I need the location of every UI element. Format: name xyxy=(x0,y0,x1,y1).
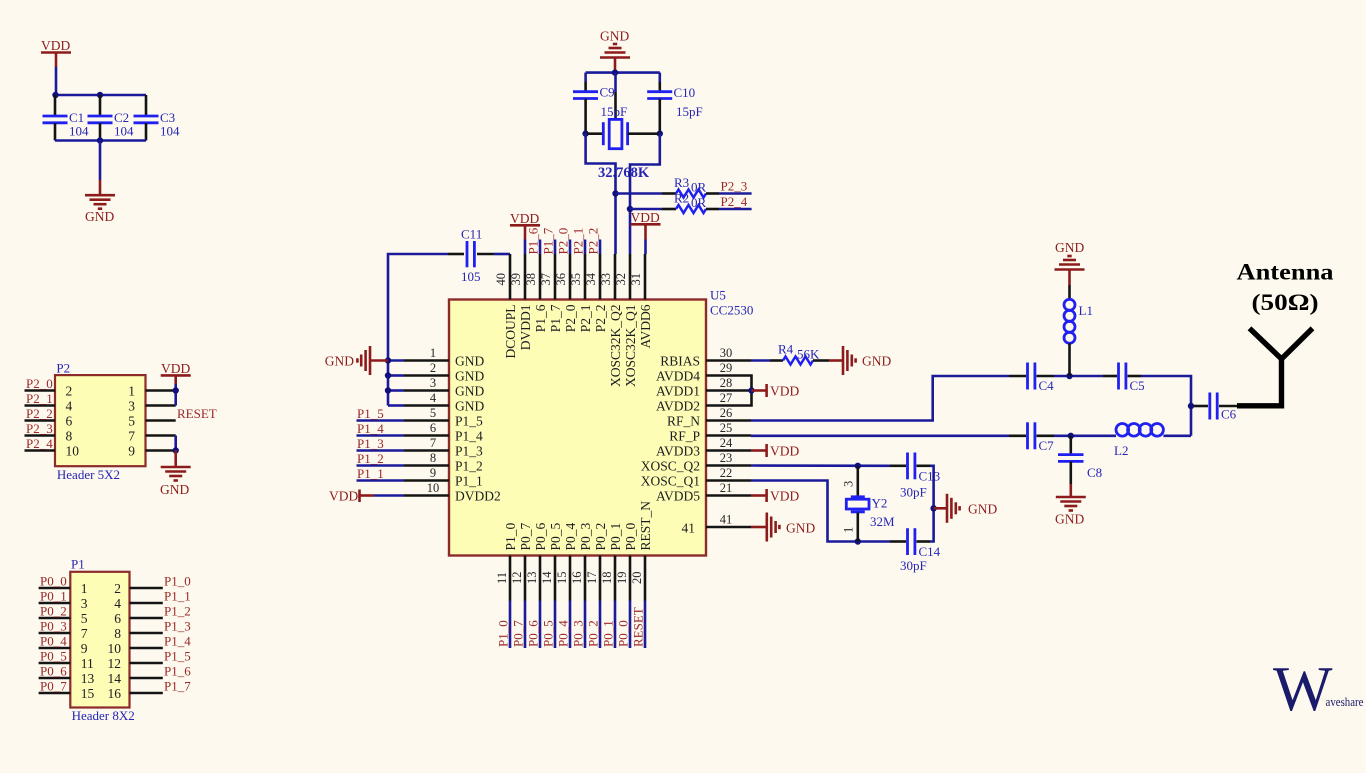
crystal Y1 32.768K xyxy=(586,119,660,148)
svg-text:P1_3: P1_3 xyxy=(455,443,483,458)
svg-text:RBIAS: RBIAS xyxy=(660,353,700,368)
U5 pin 22 (XOSC_Q1) xyxy=(641,466,751,488)
svg-text:P0_5: P0_5 xyxy=(548,522,563,550)
connector P1 body (Header 8X2) xyxy=(70,572,129,708)
wire rail to Y1 case pin xyxy=(614,73,617,92)
wire stub pin 38 xyxy=(539,240,542,255)
junction C6 node xyxy=(1188,403,1194,409)
svg-text:P0_3: P0_3 xyxy=(40,618,67,633)
junction R2 tap xyxy=(627,206,633,212)
svg-text:AVDD6: AVDD6 xyxy=(638,304,653,348)
svg-text:20: 20 xyxy=(630,572,644,585)
capacitor C1 xyxy=(43,95,90,141)
svg-text:Y2: Y2 xyxy=(872,496,888,511)
svg-text:VDD: VDD xyxy=(161,361,190,376)
svg-text:GND: GND xyxy=(455,368,484,383)
svg-text:18: 18 xyxy=(600,572,614,585)
svg-text:P1_1: P1_1 xyxy=(455,473,483,488)
U5 pin 34 (P2_2) xyxy=(584,254,608,332)
svg-text:27: 27 xyxy=(720,391,733,405)
svg-text:GND: GND xyxy=(160,482,189,497)
svg-text:P1_7: P1_7 xyxy=(548,304,563,332)
wire / net P0_4 (pin 15) xyxy=(555,601,570,649)
U5 pin 3 (GND) xyxy=(404,376,484,398)
svg-text:16: 16 xyxy=(570,572,584,585)
svg-text:3: 3 xyxy=(81,596,88,611)
U5 pin 2 (GND) xyxy=(404,361,484,383)
ground GND (R4) xyxy=(829,346,891,375)
svg-text:P0_2: P0_2 xyxy=(593,523,608,551)
svg-text:AVDD1: AVDD1 xyxy=(656,383,700,398)
U5 pin 32 (XOSC32K_Q1) xyxy=(614,254,638,387)
power VDD (top-left) xyxy=(41,38,71,67)
P1 pin 15 / net P0_7 xyxy=(39,678,95,701)
svg-text:24: 24 xyxy=(720,436,733,450)
svg-text:P1_5: P1_5 xyxy=(455,413,483,428)
svg-text:P1_1: P1_1 xyxy=(357,466,384,481)
ground GND (top-left) xyxy=(85,180,115,224)
P1 pin 11 / net P0_5 xyxy=(39,648,94,671)
svg-text:2: 2 xyxy=(430,361,436,375)
svg-text:P1: P1 xyxy=(71,557,85,572)
U5 pin 20 (REST_N) xyxy=(630,501,653,601)
svg-text:GND: GND xyxy=(862,354,891,369)
P2 pin 9 xyxy=(128,443,175,458)
svg-text:1: 1 xyxy=(842,527,856,533)
junction rail / GND xyxy=(930,505,936,511)
svg-text:17: 17 xyxy=(585,572,599,585)
svg-text:6: 6 xyxy=(114,611,121,626)
P2 pin 3 xyxy=(128,398,175,413)
P1 pin 16 / net P1_7 xyxy=(108,678,192,701)
svg-text:P0_2: P0_2 xyxy=(585,620,600,647)
U5 pin 12 (P0_7) xyxy=(510,522,533,600)
ground GND (above L1, inverted) xyxy=(1055,240,1085,285)
wire VDD to rail xyxy=(55,67,58,95)
U5 pin 15 (P0_4) xyxy=(555,522,578,600)
wire / net P1_2 (pin 8) xyxy=(357,451,405,466)
resistor R3 0R xyxy=(616,175,720,198)
U5 pin 13 (P0_6) xyxy=(525,522,548,600)
wire / net P1_3 (pin 7) xyxy=(357,436,405,451)
wire / net P2_4 xyxy=(719,194,752,209)
wire / net P0_5 (pin 14) xyxy=(540,601,555,649)
svg-text:P0_6: P0_6 xyxy=(525,620,540,647)
svg-text:RF_N: RF_N xyxy=(667,413,700,428)
svg-text:RF_P: RF_P xyxy=(669,428,700,443)
svg-text:21: 21 xyxy=(720,481,733,495)
svg-text:P1_5: P1_5 xyxy=(357,406,384,421)
U5 pin 28 (AVDD1) xyxy=(656,376,751,398)
svg-text:25: 25 xyxy=(720,421,733,435)
svg-text:23: 23 xyxy=(720,451,733,465)
svg-text:P1_1: P1_1 xyxy=(164,588,191,603)
junction at C2 top xyxy=(97,92,103,98)
resistor R4 56K xyxy=(751,342,829,365)
svg-text:P0_3: P0_3 xyxy=(570,620,585,647)
crystal Y2 32M xyxy=(842,466,896,542)
svg-text:C5: C5 xyxy=(1130,378,1145,393)
junction pin2 xyxy=(385,372,391,378)
U5 pin 1 (GND) xyxy=(404,346,484,368)
wire crystal top rail xyxy=(586,71,660,74)
svg-text:XOSC32K_Q2: XOSC32K_Q2 xyxy=(608,305,623,388)
svg-text:GND: GND xyxy=(600,29,629,44)
svg-text:(50Ω): (50Ω) xyxy=(1252,290,1319,316)
svg-text:XOSC32K_Q1: XOSC32K_Q1 xyxy=(623,305,638,388)
power VDD (pin 28) xyxy=(752,384,800,399)
svg-text:28: 28 xyxy=(720,376,733,390)
wire C13/C14 right rail xyxy=(930,466,934,542)
svg-text:9: 9 xyxy=(430,466,436,480)
U5 pin 11 (P1_0) xyxy=(495,522,518,600)
U5 pin 23 (XOSC_Q2) xyxy=(641,451,751,473)
capacitor C11 xyxy=(388,227,510,361)
svg-text:5: 5 xyxy=(430,406,436,420)
junction C8 xyxy=(1068,433,1074,439)
wire / net P1_1 (pin 9) xyxy=(357,466,405,481)
power VDD (pin 24) xyxy=(751,444,799,459)
wire / net P0_0 (pin 19) xyxy=(615,601,630,649)
U5 pin 35 (P2_1) xyxy=(569,254,593,332)
capacitor C4 xyxy=(1009,363,1054,394)
svg-text:P0_1: P0_1 xyxy=(600,620,615,647)
svg-text:4: 4 xyxy=(430,391,437,405)
P1 pin 4 / net P1_1 xyxy=(114,588,190,611)
svg-text:L2: L2 xyxy=(1114,443,1128,458)
svg-text:32: 32 xyxy=(614,273,628,286)
svg-text:VDD: VDD xyxy=(329,489,358,504)
svg-text:11: 11 xyxy=(495,572,509,584)
wire VDD to pins 1,3 xyxy=(174,384,177,406)
svg-text:30pF: 30pF xyxy=(900,558,927,573)
svg-text:Header 5X2: Header 5X2 xyxy=(57,467,120,482)
svg-text:P2_2: P2_2 xyxy=(593,305,608,333)
svg-text:3: 3 xyxy=(430,376,436,390)
wire pin23 to Y2 top / C13 xyxy=(751,464,890,467)
junction P2 pin1 xyxy=(173,387,179,393)
svg-text:GND: GND xyxy=(786,521,815,536)
U5 pin 16 (P0_3) xyxy=(570,522,593,600)
wire top rail C1-C3 xyxy=(55,94,146,97)
svg-text:R2: R2 xyxy=(674,191,689,206)
svg-text:P0_7: P0_7 xyxy=(40,678,67,693)
svg-text:AVDD5: AVDD5 xyxy=(656,488,700,503)
capacitor C8 xyxy=(1058,436,1102,484)
svg-text:GND: GND xyxy=(1055,240,1084,255)
svg-text:P1_6: P1_6 xyxy=(164,663,191,678)
junction C9/Y1 xyxy=(582,130,588,136)
svg-text:P1_0: P1_0 xyxy=(495,620,510,647)
svg-text:9: 9 xyxy=(128,443,135,458)
svg-text:15pF: 15pF xyxy=(676,104,703,119)
P2 pin 6 / net P2_2 xyxy=(25,406,73,429)
power VDD (P2 pins 1,3) xyxy=(161,361,191,384)
U5 pin 38 (P1_6) xyxy=(524,254,548,332)
svg-text:32.768K: 32.768K xyxy=(598,165,650,181)
svg-text:aveshare: aveshare xyxy=(1326,694,1364,709)
power VDD (pin 21) xyxy=(751,489,799,504)
svg-text:P2: P2 xyxy=(56,361,70,376)
svg-text:104: 104 xyxy=(69,124,89,139)
U5 pin 39 (DVDD1) xyxy=(509,254,533,350)
svg-text:GND: GND xyxy=(455,353,484,368)
svg-text:0R: 0R xyxy=(691,195,707,210)
wire / net P1_5 (pin 5) xyxy=(357,406,405,421)
svg-text:P0_2: P0_2 xyxy=(40,603,67,618)
U5 pin 6 (P1_4) xyxy=(404,421,483,443)
P1 pin 10 / net P1_4 xyxy=(108,633,192,656)
op-amp U5 body (IC CC2530) xyxy=(449,300,706,556)
svg-text:41: 41 xyxy=(720,513,733,527)
P2 pin 5 xyxy=(128,413,175,428)
svg-text:30: 30 xyxy=(720,346,733,360)
U5 pin 18 (P0_1) xyxy=(600,523,623,601)
svg-text:5: 5 xyxy=(128,413,135,428)
U5 pin 9 (P1_1) xyxy=(404,466,483,488)
svg-text:GND: GND xyxy=(968,502,997,517)
U5 pin 21 (AVDD5) xyxy=(656,481,751,503)
svg-text:P0_4: P0_4 xyxy=(563,522,578,550)
capacitor C6 xyxy=(1194,393,1237,422)
wire / net P0_7 (pin 12) xyxy=(510,601,525,649)
svg-text:GND: GND xyxy=(455,398,484,413)
svg-text:C8: C8 xyxy=(1087,465,1102,480)
ground GND (left of pins 1-4) xyxy=(325,346,388,375)
svg-text:P2_4: P2_4 xyxy=(721,194,748,209)
svg-text:56K: 56K xyxy=(797,347,820,362)
svg-text:AVDD2: AVDD2 xyxy=(656,398,700,413)
ground GND (C8) xyxy=(1055,484,1086,527)
ground GND (above Y1, inverted) xyxy=(600,29,630,73)
svg-text:REST_N: REST_N xyxy=(638,501,653,551)
svg-text:P1_2: P1_2 xyxy=(357,451,384,466)
svg-text:P1_6: P1_6 xyxy=(525,227,540,254)
svg-text:1: 1 xyxy=(81,581,88,596)
label Antenna (50ohm) xyxy=(1237,260,1334,317)
svg-text:2: 2 xyxy=(66,383,73,398)
wire / net P0_6 (pin 13) xyxy=(525,601,540,649)
svg-text:105: 105 xyxy=(461,269,481,284)
U5 pin 10 (DVDD2) xyxy=(404,481,501,503)
svg-text:C9: C9 xyxy=(600,85,615,100)
svg-text:P0_5: P0_5 xyxy=(540,620,555,647)
capacitor C2 xyxy=(88,95,135,141)
svg-text:7: 7 xyxy=(128,428,135,443)
junction pin3 xyxy=(385,387,391,393)
svg-text:P0_7: P0_7 xyxy=(510,620,525,647)
svg-text:31: 31 xyxy=(629,273,643,286)
svg-text:39: 39 xyxy=(509,273,523,286)
U5 pin 17 (P0_2) xyxy=(585,523,608,601)
junction pin 28 xyxy=(748,387,754,393)
inductor L2 xyxy=(1071,424,1191,459)
U5 pin 31 (AVDD6) xyxy=(629,254,653,349)
P1 pin 5 / net P0_2 xyxy=(39,603,88,626)
svg-text:P2_0: P2_0 xyxy=(26,376,53,391)
svg-text:10: 10 xyxy=(427,481,440,495)
svg-text:34: 34 xyxy=(584,272,598,285)
wire / net P0_1 (pin 18) xyxy=(600,601,615,649)
svg-text:CC2530: CC2530 xyxy=(710,303,753,318)
svg-text:GND: GND xyxy=(455,383,484,398)
svg-text:13: 13 xyxy=(81,671,95,686)
wire / net P1_0 (pin 11) xyxy=(495,601,510,649)
wire stub pin 34 xyxy=(599,240,602,255)
svg-text:1: 1 xyxy=(430,346,436,360)
ground GND (P2) xyxy=(160,451,191,498)
svg-text:P1_7: P1_7 xyxy=(164,678,191,693)
U5 pin 8 (P1_2) xyxy=(404,451,483,473)
junction at VDD/C1 xyxy=(52,92,58,98)
svg-text:P2_2: P2_2 xyxy=(585,228,600,255)
capacitor C3 xyxy=(134,95,181,141)
svg-text:Header 8X2: Header 8X2 xyxy=(72,708,135,723)
junction Y2 top (pin 3) xyxy=(855,463,861,469)
svg-text:36: 36 xyxy=(554,273,568,286)
junction C10/Y1 xyxy=(657,130,663,136)
svg-text:P0_7: P0_7 xyxy=(518,522,533,550)
svg-text:VDD: VDD xyxy=(510,211,539,226)
svg-text:RESET: RESET xyxy=(177,406,217,421)
svg-text:P1_0: P1_0 xyxy=(164,573,191,588)
resistor R2 0R xyxy=(630,191,719,214)
svg-text:P1_4: P1_4 xyxy=(455,428,483,443)
U5 pin 41 (pad) xyxy=(682,513,752,536)
svg-text:26: 26 xyxy=(720,406,733,420)
svg-text:VDD: VDD xyxy=(770,489,799,504)
svg-text:AVDD4: AVDD4 xyxy=(656,368,700,383)
U5 pin 29 (AVDD4) xyxy=(656,361,751,383)
svg-text:C13: C13 xyxy=(919,469,941,484)
svg-text:P2_0: P2_0 xyxy=(563,304,578,332)
svg-text:P0_4: P0_4 xyxy=(40,633,67,648)
svg-text:P1_0: P1_0 xyxy=(503,522,518,550)
junction P2 pin9 xyxy=(173,447,179,453)
svg-text:P2_1: P2_1 xyxy=(570,228,585,255)
svg-text:C10: C10 xyxy=(674,85,696,100)
capacitor C14 xyxy=(890,528,941,573)
svg-text:13: 13 xyxy=(525,572,539,585)
wire stub pin 37 xyxy=(554,240,557,255)
svg-text:11: 11 xyxy=(81,656,94,671)
svg-text:12: 12 xyxy=(108,656,122,671)
U5 pin 40 (DCOUPL) xyxy=(494,254,518,359)
U5 pin 25 (RF_P) xyxy=(669,421,751,443)
wire stub pin 36 xyxy=(569,240,572,255)
svg-text:DVDD1: DVDD1 xyxy=(518,305,533,351)
svg-text:W: W xyxy=(1273,654,1333,724)
svg-text:38: 38 xyxy=(524,273,538,286)
svg-text:16: 16 xyxy=(108,686,122,701)
svg-text:XOSC_Q2: XOSC_Q2 xyxy=(641,458,700,473)
svg-text:C11: C11 xyxy=(461,227,482,242)
svg-text:3: 3 xyxy=(842,481,856,487)
capacitor C13 xyxy=(890,453,940,500)
svg-text:C4: C4 xyxy=(1039,378,1055,393)
wire / net P1_4 (pin 6) xyxy=(357,421,405,436)
U5 pin 5 (P1_5) xyxy=(404,406,483,428)
svg-text:U5: U5 xyxy=(710,288,726,303)
wire / net P0_2 (pin 17) xyxy=(585,601,600,649)
P1 pin 7 / net P0_3 xyxy=(39,618,88,641)
wire rail to GND xyxy=(99,141,102,181)
U5 pin 36 (P2_0) xyxy=(554,254,578,332)
svg-text:R3: R3 xyxy=(674,175,689,190)
Waveshare logo xyxy=(1273,654,1364,724)
wire Y1 right to pin32 xyxy=(630,134,660,254)
svg-text:7: 7 xyxy=(81,626,88,641)
svg-text:P0_0: P0_0 xyxy=(615,620,630,647)
svg-text:0R: 0R xyxy=(691,180,707,195)
svg-text:P1_6: P1_6 xyxy=(533,304,548,332)
svg-text:14: 14 xyxy=(540,571,554,584)
wire / net P2_3 xyxy=(719,179,752,194)
svg-text:P0_6: P0_6 xyxy=(40,663,67,678)
svg-text:R4: R4 xyxy=(778,342,794,357)
svg-text:9: 9 xyxy=(81,641,88,656)
svg-text:15: 15 xyxy=(555,572,569,585)
svg-text:4: 4 xyxy=(114,596,121,611)
ground GND (pin 41) xyxy=(751,513,815,542)
svg-text:6: 6 xyxy=(66,413,73,428)
inductor L1 xyxy=(1064,285,1093,376)
wire / net RESET (pin 20) xyxy=(630,601,645,649)
svg-text:P1_2: P1_2 xyxy=(455,458,483,473)
svg-text:GND: GND xyxy=(85,209,114,224)
capacitor C9 xyxy=(573,73,627,134)
U5 pin 30 (RBIAS) xyxy=(660,346,751,368)
P1 pin 1 / net P0_0 xyxy=(39,573,88,596)
antenna symbol xyxy=(1237,328,1313,406)
svg-text:14: 14 xyxy=(108,671,122,686)
svg-text:29: 29 xyxy=(720,361,733,375)
junction R3 tap xyxy=(612,190,618,196)
svg-text:P1_4: P1_4 xyxy=(164,633,191,648)
svg-text:15: 15 xyxy=(81,686,95,701)
wire C5 down to C6 node xyxy=(1141,376,1191,436)
P2 pin 7 xyxy=(128,428,175,443)
svg-text:15pF: 15pF xyxy=(601,104,628,119)
svg-text:104: 104 xyxy=(160,124,180,139)
P1 pin 3 / net P0_1 xyxy=(39,588,88,611)
svg-text:GND: GND xyxy=(1055,512,1084,527)
svg-text:DCOUPL: DCOUPL xyxy=(503,305,518,359)
U5 pin 27 (AVDD2) xyxy=(656,391,751,413)
wire pins 7-9 xyxy=(174,436,177,451)
ground GND (32M circuit) xyxy=(934,494,998,523)
wire RF_N (pin 26) to C4 xyxy=(751,376,1009,421)
svg-text:41: 41 xyxy=(682,521,696,536)
P1 pin 13 / net P0_6 xyxy=(39,663,95,686)
svg-text:RESET: RESET xyxy=(630,607,645,647)
P1 pin 6 / net P1_2 xyxy=(114,603,190,626)
svg-text:VDD: VDD xyxy=(770,384,799,399)
svg-text:P1_3: P1_3 xyxy=(357,436,384,451)
svg-text:P2_2: P2_2 xyxy=(26,406,53,421)
svg-text:VDD: VDD xyxy=(41,38,70,53)
svg-text:P0_4: P0_4 xyxy=(555,620,570,647)
wire C4 to C5 xyxy=(1054,375,1103,378)
svg-text:C14: C14 xyxy=(919,544,941,559)
svg-text:1: 1 xyxy=(128,383,135,398)
svg-text:10: 10 xyxy=(66,443,80,458)
P1 pin 8 / net P1_3 xyxy=(114,618,190,641)
svg-text:22: 22 xyxy=(720,466,733,480)
svg-text:7: 7 xyxy=(430,436,436,450)
svg-text:5: 5 xyxy=(81,611,88,626)
U5 pin 4 (GND) xyxy=(404,391,484,413)
